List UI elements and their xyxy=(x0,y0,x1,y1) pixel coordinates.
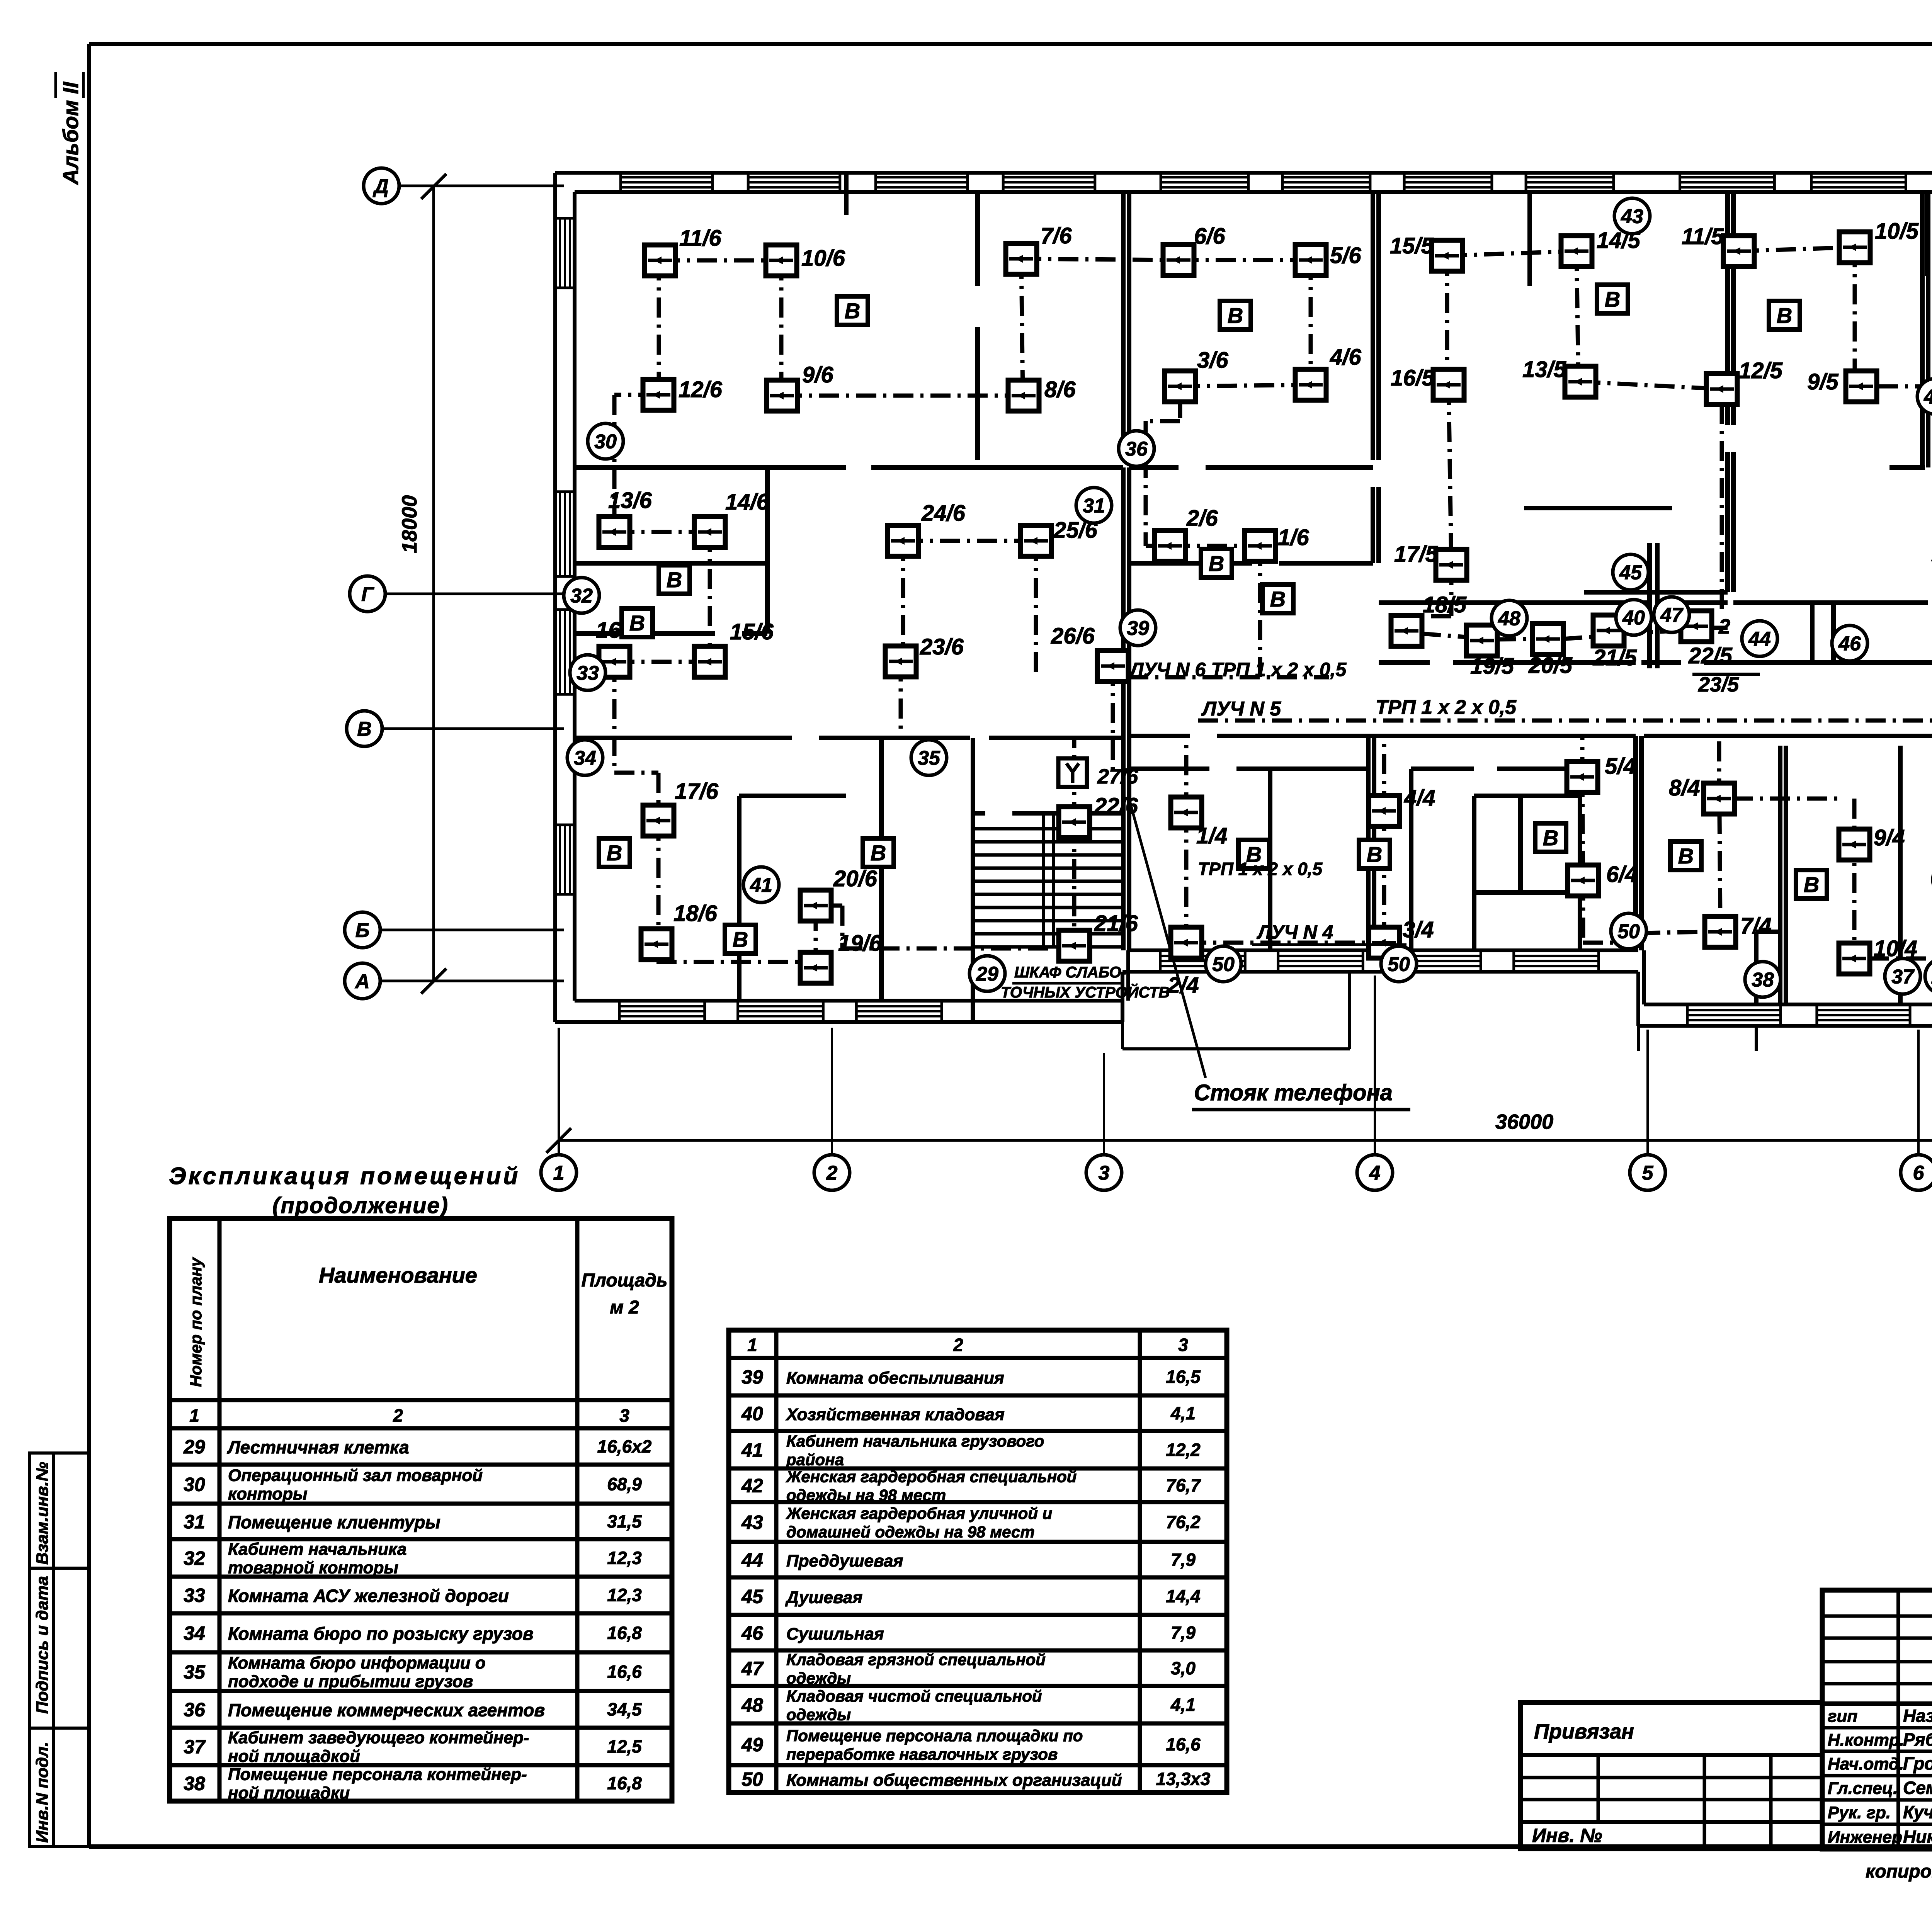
detector 13/6 xyxy=(599,488,652,547)
detector 7/6 xyxy=(1006,223,1072,274)
room 48 xyxy=(1492,600,1527,636)
svg-text:Комната АСУ железной дороги: Комната АСУ железной дороги xyxy=(228,1586,509,1606)
svg-text:Рук. гр.: Рук. гр. xyxy=(1828,1803,1891,1822)
detector 6/6 xyxy=(1163,224,1225,275)
svg-text:2: 2 xyxy=(826,1162,838,1185)
luch 5 trunk xyxy=(1198,719,1932,723)
svg-text:29: 29 xyxy=(976,963,998,986)
svg-text:ТРП 1 х 2 х 0,5: ТРП 1 х 2 х 0,5 xyxy=(1198,859,1323,879)
svg-text:В: В xyxy=(1605,287,1620,311)
svg-text:Комната бюро информации о: Комната бюро информации о xyxy=(228,1654,486,1672)
svg-text:33: 33 xyxy=(577,662,599,685)
svg-text:Помещение коммерческих агентов: Помещение коммерческих агентов xyxy=(228,1700,545,1720)
svg-text:одежды на 98 мест: одежды на 98 мест xyxy=(786,1486,946,1504)
detector 6/4 xyxy=(1568,862,1638,896)
svg-text:подходе и прибытии грузов: подходе и прибытии грузов xyxy=(228,1672,473,1691)
svg-text:20/6: 20/6 xyxy=(833,866,878,891)
axis 6 leader xyxy=(1917,1030,1920,1155)
svg-text:36000: 36000 xyxy=(1495,1110,1553,1134)
svg-text:18/6: 18/6 xyxy=(673,901,718,926)
staircase left (room 29) xyxy=(973,816,1122,947)
svg-text:3,0: 3,0 xyxy=(1171,1658,1196,1678)
axis Б xyxy=(345,912,380,948)
svg-text:В: В xyxy=(1543,826,1558,850)
svg-text:20/5: 20/5 xyxy=(1528,653,1573,678)
svg-text:16,6: 16,6 xyxy=(1166,1734,1201,1754)
svg-text:В: В xyxy=(357,718,372,741)
axis 5 leader xyxy=(1646,1030,1649,1155)
svg-text:12,3: 12,3 xyxy=(607,1585,642,1605)
svg-text:Кабинет заведующего контейнер-: Кабинет заведующего контейнер- xyxy=(228,1728,529,1747)
svg-text:18/5: 18/5 xyxy=(1423,592,1467,617)
svg-text:37: 37 xyxy=(184,1736,206,1758)
svg-text:34: 34 xyxy=(184,1623,205,1644)
svg-text:Преддушевая: Преддушевая xyxy=(786,1552,903,1570)
room table 1 (29-38) xyxy=(170,1219,672,1803)
svg-text:19/5: 19/5 xyxy=(1470,654,1514,679)
vent mark B xyxy=(1359,840,1390,868)
svg-text:В: В xyxy=(1777,303,1792,328)
svg-text:48: 48 xyxy=(1498,608,1520,630)
svg-text:3/6: 3/6 xyxy=(1197,348,1228,373)
svg-text:7/6: 7/6 xyxy=(1041,223,1072,248)
svg-text:В: В xyxy=(607,841,622,865)
vent mark B xyxy=(659,565,690,594)
svg-text:17/6: 17/6 xyxy=(675,779,719,804)
room 50 xyxy=(1206,946,1241,982)
svg-text:Сушильная: Сушильная xyxy=(786,1625,884,1643)
svg-text:Инв. №: Инв. № xyxy=(1532,1825,1602,1846)
svg-text:36: 36 xyxy=(184,1699,206,1721)
vent mark B xyxy=(863,838,894,867)
svg-text:Лестничная клетка: Лестничная клетка xyxy=(227,1437,409,1457)
windows top wall xyxy=(621,173,1932,192)
detector 16/6 xyxy=(596,618,640,677)
svg-text:А: А xyxy=(354,970,370,993)
svg-text:2: 2 xyxy=(393,1405,403,1426)
svg-text:5/6: 5/6 xyxy=(1330,243,1361,268)
vent mark B xyxy=(725,925,756,953)
detector 19/5 xyxy=(1466,625,1514,679)
detector 5/5 xyxy=(1931,544,1932,574)
vent mark B xyxy=(1201,549,1232,578)
axis 5 xyxy=(1630,1155,1665,1190)
svg-text:9/5: 9/5 xyxy=(1807,369,1838,394)
svg-text:37: 37 xyxy=(1891,966,1915,988)
axis 2 xyxy=(814,1155,850,1190)
axis 4 leader xyxy=(1374,975,1376,1155)
svg-text:Инженер: Инженер xyxy=(1828,1828,1902,1847)
svg-text:24/6: 24/6 xyxy=(921,501,966,526)
svg-text:4/4: 4/4 xyxy=(1404,785,1435,811)
svg-text:В: В xyxy=(1228,303,1243,328)
svg-text:45: 45 xyxy=(741,1586,764,1608)
svg-text:ЛУЧ N 6 ТРП 1 х 2 х 0,5: ЛУЧ N 6 ТРП 1 х 2 х 0,5 xyxy=(1129,659,1347,680)
svg-text:10/4: 10/4 xyxy=(1874,936,1917,961)
svg-text:38: 38 xyxy=(1752,969,1774,991)
svg-text:76,2: 76,2 xyxy=(1166,1512,1201,1532)
svg-text:ЛУЧ N 5: ЛУЧ N 5 xyxy=(1201,698,1281,720)
stamp left extension xyxy=(1520,1703,1822,1849)
svg-text:Подпись и дата: Подпись и дата xyxy=(33,1576,52,1714)
svg-text:29: 29 xyxy=(183,1436,205,1458)
svg-text:42: 42 xyxy=(741,1475,763,1497)
svg-text:Кабинет начальника: Кабинет начальника xyxy=(228,1540,406,1559)
detector 9/5 xyxy=(1807,369,1877,402)
detector 4/4 xyxy=(1369,785,1435,826)
vent mark B xyxy=(1796,870,1827,899)
svg-text:Женская гардеробная специально: Женская гардеробная специальной xyxy=(786,1468,1077,1486)
svg-text:26/6: 26/6 xyxy=(1051,624,1095,649)
svg-text:Никитина: Никитина xyxy=(1903,1827,1932,1847)
detector 10/4 xyxy=(1839,936,1917,974)
svg-text:Стояк телефона: Стояк телефона xyxy=(1194,1080,1393,1105)
svg-text:11/6: 11/6 xyxy=(679,226,721,251)
manual call point 27/6 xyxy=(1058,758,1138,788)
svg-text:16,6: 16,6 xyxy=(607,1662,642,1682)
svg-text:м 2: м 2 xyxy=(610,1297,639,1318)
title block stamp xyxy=(1822,1590,1932,1849)
luch 6 trunk xyxy=(1128,675,1329,680)
svg-text:В: В xyxy=(667,568,682,592)
svg-text:Б: Б xyxy=(355,919,370,942)
room 37 xyxy=(1885,958,1920,994)
svg-text:31,5: 31,5 xyxy=(607,1511,642,1531)
svg-text:13,3х3: 13,3х3 xyxy=(1156,1769,1211,1789)
detector 11/6 xyxy=(645,226,721,276)
svg-text:33: 33 xyxy=(184,1585,205,1606)
room 35 xyxy=(911,740,947,775)
detector 22/5 xyxy=(1681,611,1733,668)
svg-text:Душевая: Душевая xyxy=(785,1588,862,1607)
svg-text:40: 40 xyxy=(1622,607,1645,629)
telephone riser leader xyxy=(1128,796,1206,1078)
svg-text:Инв.N подл.: Инв.N подл. xyxy=(33,1742,52,1843)
svg-text:В: В xyxy=(1367,842,1382,867)
svg-text:40: 40 xyxy=(741,1403,763,1424)
svg-text:9/6: 9/6 xyxy=(802,362,833,387)
detector 26/6 xyxy=(1051,624,1128,681)
detector 25/6 xyxy=(1020,518,1098,556)
axis 3 xyxy=(1086,1155,1122,1190)
svg-text:48: 48 xyxy=(741,1694,763,1716)
svg-text:9/4: 9/4 xyxy=(1874,825,1905,850)
axis 2 leader xyxy=(831,1028,833,1155)
room 31 xyxy=(1076,488,1112,523)
svg-text:50: 50 xyxy=(1212,953,1235,976)
svg-text:46: 46 xyxy=(1838,633,1861,655)
axis Б leader xyxy=(380,929,564,931)
detector 17/6 xyxy=(643,779,719,836)
svg-text:31: 31 xyxy=(184,1511,205,1533)
svg-text:21/6: 21/6 xyxy=(1094,911,1138,936)
svg-text:47: 47 xyxy=(741,1658,764,1679)
svg-text:13/6: 13/6 xyxy=(608,488,652,513)
svg-text:Г: Г xyxy=(361,583,374,606)
svg-text:Экспликация помещений: Экспликация помещений xyxy=(169,1163,520,1190)
svg-text:15/6: 15/6 xyxy=(730,619,774,644)
room table 2 (39-50) xyxy=(729,1330,1227,1793)
svg-text:1/6: 1/6 xyxy=(1278,525,1309,550)
svg-text:переработке навалочных грузов: переработке навалочных грузов xyxy=(786,1745,1058,1763)
detector 15/6 xyxy=(694,619,774,677)
axis 3 leader xyxy=(1103,1053,1105,1155)
svg-text:30: 30 xyxy=(184,1474,205,1496)
room 29 xyxy=(1925,958,1932,994)
axis А leader xyxy=(380,980,564,982)
detector 24/6 xyxy=(888,501,966,556)
svg-text:В: В xyxy=(1804,872,1819,897)
svg-text:13/5: 13/5 xyxy=(1522,357,1566,382)
detector 8/6 xyxy=(1008,377,1076,411)
svg-text:41: 41 xyxy=(750,874,772,897)
svg-text:4,1: 4,1 xyxy=(1170,1695,1196,1715)
svg-text:3: 3 xyxy=(1178,1335,1188,1355)
detector 8/4 xyxy=(1669,775,1735,814)
detector 4/6 xyxy=(1295,345,1361,400)
svg-text:3: 3 xyxy=(1099,1162,1110,1185)
vent mark B xyxy=(599,838,630,867)
vent mark B xyxy=(1597,285,1628,313)
svg-text:38: 38 xyxy=(184,1773,205,1795)
svg-text:10/5: 10/5 xyxy=(1875,219,1919,244)
detector 21/5 xyxy=(1593,615,1637,670)
svg-text:ШКАФ СЛАБО-: ШКАФ СЛАБО- xyxy=(1014,964,1126,981)
svg-text:39: 39 xyxy=(1127,617,1149,640)
svg-text:Рябова: Рябова xyxy=(1903,1730,1932,1750)
svg-text:товарной конторы: товарной конторы xyxy=(228,1558,398,1577)
svg-text:16,6х2: 16,6х2 xyxy=(597,1436,652,1456)
svg-text:23/5: 23/5 xyxy=(1698,673,1739,696)
svg-text:одежды: одежды xyxy=(786,1706,851,1724)
svg-text:Помещение клиентуры: Помещение клиентуры xyxy=(228,1512,440,1532)
svg-text:Альбом II: Альбом II xyxy=(58,82,83,185)
svg-text:49: 49 xyxy=(741,1734,763,1756)
room 42 xyxy=(1917,379,1932,414)
svg-text:16,5: 16,5 xyxy=(1166,1367,1201,1387)
svg-text:23/6: 23/6 xyxy=(920,634,964,659)
svg-text:8/6: 8/6 xyxy=(1044,377,1076,402)
svg-text:11/5: 11/5 xyxy=(1682,224,1724,249)
svg-text:8/4: 8/4 xyxy=(1669,775,1700,800)
svg-text:36: 36 xyxy=(1125,438,1148,461)
axis 1 leader xyxy=(558,1028,560,1155)
svg-text:31: 31 xyxy=(1083,495,1105,517)
room 32 xyxy=(564,578,599,613)
detector 18/5 xyxy=(1391,592,1467,646)
svg-text:4/6: 4/6 xyxy=(1330,345,1361,370)
detector 15/5 xyxy=(1390,233,1463,271)
axis Д leader xyxy=(399,185,564,187)
svg-text:В: В xyxy=(1209,551,1224,576)
detector 1/4 xyxy=(1171,797,1228,848)
detector 12/5 xyxy=(1706,358,1783,404)
svg-text:41: 41 xyxy=(741,1439,763,1461)
svg-text:ТРП 1 х 2 х 0,5: ТРП 1 х 2 х 0,5 xyxy=(1376,696,1517,719)
svg-text:Комната обеспыливания: Комната обеспыливания xyxy=(786,1369,1004,1388)
detector 5/4 xyxy=(1567,754,1636,792)
axis А xyxy=(345,963,380,999)
svg-text:43: 43 xyxy=(741,1512,763,1533)
svg-text:конторы: конторы xyxy=(228,1485,308,1504)
detector 22/6 xyxy=(1059,794,1138,838)
svg-text:32: 32 xyxy=(570,585,593,607)
detector 3/4 xyxy=(1369,917,1434,958)
svg-text:50: 50 xyxy=(742,1769,763,1790)
svg-text:Нач.отд.: Нач.отд. xyxy=(1828,1755,1904,1774)
svg-text:12,5: 12,5 xyxy=(607,1737,642,1757)
svg-text:76,7: 76,7 xyxy=(1166,1475,1201,1496)
room 46 xyxy=(1832,625,1867,661)
vent mark B xyxy=(1535,823,1566,852)
axis 1 xyxy=(541,1155,577,1190)
svg-text:2/6: 2/6 xyxy=(1186,506,1218,531)
svg-text:В: В xyxy=(1678,844,1694,868)
room 50 xyxy=(1611,913,1646,949)
room 47 xyxy=(1654,597,1689,632)
svg-text:одежды: одежды xyxy=(786,1669,851,1687)
svg-text:4,1: 4,1 xyxy=(1170,1403,1196,1423)
svg-text:6: 6 xyxy=(1913,1162,1925,1185)
svg-text:района: района xyxy=(786,1451,844,1469)
detector 2/6 xyxy=(1155,506,1218,561)
axis Д xyxy=(364,168,399,204)
detector 2/4 xyxy=(1167,927,1202,998)
room 39 xyxy=(1120,610,1156,646)
svg-text:50: 50 xyxy=(1617,921,1640,943)
svg-text:3: 3 xyxy=(619,1405,629,1426)
svg-text:1: 1 xyxy=(553,1162,565,1185)
svg-text:68,9: 68,9 xyxy=(607,1474,642,1494)
room 40 xyxy=(1616,600,1651,635)
room 45 xyxy=(1613,554,1648,590)
svg-text:10/6: 10/6 xyxy=(801,246,845,271)
room 36 xyxy=(1119,431,1154,466)
svg-text:Назарова: Назарова xyxy=(1903,1706,1932,1726)
svg-text:Комната бюро по розыску грузо: Комната бюро по розыску грузов xyxy=(228,1624,534,1644)
room 50 xyxy=(1381,946,1417,982)
detector 23/6 xyxy=(885,634,964,677)
svg-text:14/6: 14/6 xyxy=(725,489,769,515)
detector 3/6 xyxy=(1165,348,1228,402)
svg-text:1: 1 xyxy=(189,1405,199,1426)
svg-text:2: 2 xyxy=(953,1335,963,1355)
wiring loop 4 xyxy=(1186,736,1932,958)
vent mark B xyxy=(1670,841,1701,870)
svg-text:гип: гип xyxy=(1828,1707,1857,1726)
axis Г leader xyxy=(385,593,564,595)
left margin stamp boxes xyxy=(30,1453,88,1847)
wiring loop 6 xyxy=(614,259,1311,968)
svg-text:5/4: 5/4 xyxy=(1605,754,1636,779)
svg-text:3/4: 3/4 xyxy=(1403,917,1434,942)
vent mark B xyxy=(837,296,868,325)
detector 19/6 xyxy=(800,931,882,983)
svg-text:27/6: 27/6 xyxy=(1097,765,1138,788)
svg-text:ной площадкой: ной площадкой xyxy=(228,1747,360,1766)
svg-text:1: 1 xyxy=(747,1335,757,1355)
svg-text:18000: 18000 xyxy=(398,495,421,553)
interior walls xyxy=(575,173,1932,1022)
svg-text:копировал:: копировал: xyxy=(1866,1861,1932,1882)
detector 16/5 xyxy=(1391,365,1464,400)
svg-text:7/4: 7/4 xyxy=(1740,913,1772,938)
detector 11/5 xyxy=(1682,224,1754,267)
room 43 xyxy=(1614,198,1650,234)
windows left wall xyxy=(555,218,575,894)
detector 9/4 xyxy=(1839,825,1905,860)
svg-text:Н.контр.: Н.контр. xyxy=(1828,1731,1904,1750)
svg-text:12,3: 12,3 xyxy=(607,1548,642,1568)
svg-text:39: 39 xyxy=(742,1366,763,1388)
svg-text:35: 35 xyxy=(184,1661,206,1683)
svg-text:Семчукова: Семчукова xyxy=(1903,1778,1932,1798)
svg-text:46: 46 xyxy=(741,1622,764,1644)
detector 10/5 xyxy=(1839,219,1919,263)
svg-text:Взам.инв.№: Взам.инв.№ xyxy=(33,1462,52,1565)
svg-text:Кладовая грязной специальной: Кладовая грязной специальной xyxy=(786,1650,1046,1669)
svg-text:Кладовая чистой специальной: Кладовая чистой специальной xyxy=(786,1687,1042,1705)
horizontal dimension 36000 xyxy=(559,1139,1932,1142)
vent mark B xyxy=(622,608,653,637)
svg-text:Привязан: Привязан xyxy=(1534,1720,1634,1743)
svg-text:22/5: 22/5 xyxy=(1688,643,1733,668)
axis В leader xyxy=(382,727,564,730)
detector 9/6 xyxy=(767,362,833,411)
svg-text:Гл.спец.: Гл.спец. xyxy=(1828,1779,1898,1798)
svg-text:6/4: 6/4 xyxy=(1606,862,1638,887)
svg-text:7,9: 7,9 xyxy=(1171,1623,1196,1643)
svg-text:В: В xyxy=(871,841,886,865)
detector 13/5 xyxy=(1522,357,1596,397)
svg-text:ной площадки: ной площадки xyxy=(228,1784,350,1803)
svg-text:34,5: 34,5 xyxy=(607,1699,642,1720)
room 33 xyxy=(570,655,605,690)
svg-text:5: 5 xyxy=(1642,1162,1654,1185)
svg-text:ЛУЧ N 4: ЛУЧ N 4 xyxy=(1257,921,1333,943)
detector 18/6 xyxy=(641,901,718,960)
room 34 xyxy=(567,740,603,775)
room 29 xyxy=(969,956,1005,991)
svg-text:В: В xyxy=(845,299,860,323)
detector 14/6 xyxy=(694,489,769,547)
svg-text:12/6: 12/6 xyxy=(679,377,723,402)
vent mark B xyxy=(1220,301,1251,330)
axis 6 xyxy=(1901,1155,1932,1190)
vertical dimension 18000 xyxy=(432,186,435,981)
svg-text:32: 32 xyxy=(184,1548,205,1569)
svg-text:В: В xyxy=(733,927,748,952)
detector 12/6 xyxy=(643,377,723,410)
svg-text:16,8: 16,8 xyxy=(607,1623,642,1643)
svg-text:44: 44 xyxy=(1748,628,1771,651)
svg-text:34: 34 xyxy=(574,747,596,770)
wiring loop 5 xyxy=(1406,247,1932,807)
svg-text:7,9: 7,9 xyxy=(1171,1550,1196,1570)
svg-text:Громов: Громов xyxy=(1903,1754,1932,1774)
detector 14/5 xyxy=(1561,228,1641,267)
svg-text:19/6: 19/6 xyxy=(838,931,882,956)
svg-text:домашней одежды на 98 мест: домашней одежды на 98 мест xyxy=(786,1523,1035,1541)
vent mark B xyxy=(1262,585,1293,613)
room 30 xyxy=(588,423,623,459)
entrance recess right xyxy=(1638,1026,1756,1051)
svg-text:Помещение персонала контейнер: Помещение персонала контейнер- xyxy=(228,1765,527,1784)
svg-text:47: 47 xyxy=(1660,604,1684,627)
room 44 xyxy=(1742,621,1777,656)
svg-text:45: 45 xyxy=(1619,562,1642,584)
svg-text:21/5: 21/5 xyxy=(1593,645,1637,670)
